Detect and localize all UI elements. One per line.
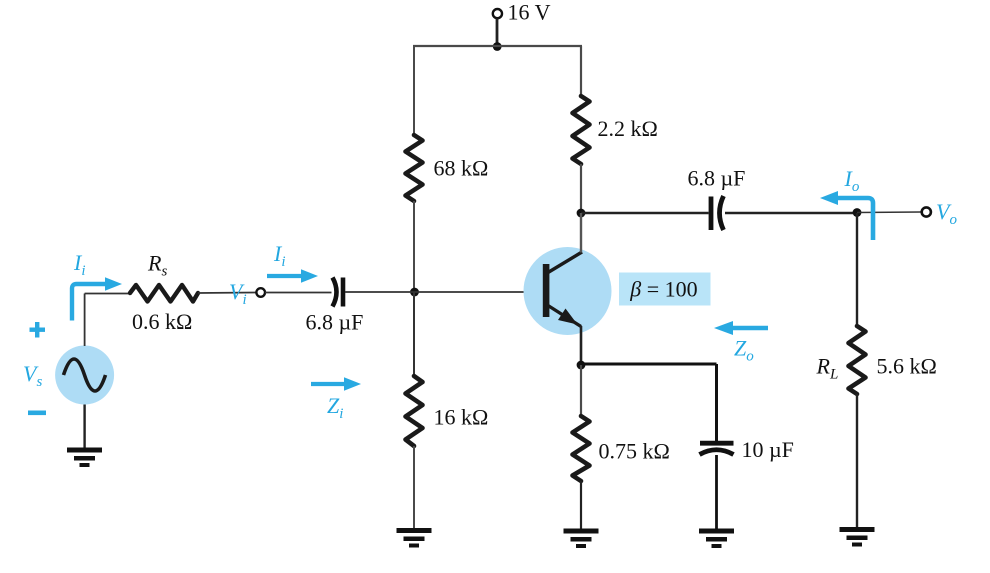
transistor Q1 emitter stroke bbox=[548, 306, 581, 327]
wire RE to ground bbox=[580, 481, 582, 529]
transistor Q1 collector stroke bbox=[548, 252, 582, 273]
wire RL to ground bbox=[856, 394, 858, 528]
svg-text:Io: Io bbox=[844, 166, 860, 195]
svg-text:0.6 kΩ: 0.6 kΩ bbox=[132, 309, 192, 334]
wire emitter node right bbox=[581, 363, 717, 366]
label plus bbox=[30, 328, 46, 332]
svg-text:6.8 µF: 6.8 µF bbox=[306, 310, 364, 335]
svg-text:5.6 kΩ: 5.6 kΩ bbox=[877, 354, 937, 379]
resistor R 68k bbox=[406, 135, 423, 201]
resistor R 16k bbox=[406, 376, 423, 446]
resistor RL 5.6k bbox=[849, 326, 866, 394]
svg-text:Ii: Ii bbox=[73, 250, 86, 279]
arrow Ii input bbox=[267, 274, 302, 278]
wire left branch upper bbox=[413, 46, 415, 136]
label minus bbox=[28, 411, 46, 416]
svg-text:0.75 kΩ: 0.75 kΩ bbox=[599, 439, 670, 464]
wire Rs to Vi terminal bbox=[198, 292, 256, 295]
svg-text:Rs: Rs bbox=[147, 251, 167, 280]
svg-text:2.2 kΩ: 2.2 kΩ bbox=[598, 116, 658, 141]
source Vs highlight circle bbox=[55, 346, 114, 405]
ground source bbox=[67, 448, 102, 468]
wire emitter node down bbox=[580, 365, 582, 417]
wire Vi to input cap bbox=[265, 292, 332, 294]
transistor Q1 base bar bbox=[543, 264, 550, 317]
wire down to bypass cap bbox=[715, 364, 718, 441]
wire collector node to output cap bbox=[581, 212, 709, 214]
svg-text:RL: RL bbox=[816, 354, 839, 383]
power terminal 16V circle bbox=[493, 9, 502, 18]
wire base node down bbox=[413, 292, 415, 377]
svg-text:68 kΩ: 68 kΩ bbox=[434, 156, 489, 181]
resistor Rs 0.6k bbox=[130, 285, 198, 302]
wire right branch upper bbox=[580, 46, 582, 97]
wire source top bbox=[84, 294, 86, 347]
svg-text:Zo: Zo bbox=[734, 336, 754, 365]
wire input cap to base node bbox=[345, 291, 414, 293]
ground 16k bbox=[397, 528, 432, 548]
svg-text:Zi: Zi bbox=[327, 393, 343, 422]
capacitor C 6.8uF input plate straight bbox=[341, 278, 346, 307]
terminal Vo circle bbox=[922, 207, 931, 216]
wire collector bbox=[580, 213, 582, 253]
terminal Vi circle bbox=[256, 288, 265, 297]
resistor RE 0.75k bbox=[573, 416, 590, 481]
arrow Zo bbox=[733, 326, 768, 330]
capacitor C 10uF plate curved bbox=[700, 450, 734, 455]
capacitor C 10uF plate straight bbox=[700, 441, 734, 446]
node supply rail junction bbox=[493, 42, 502, 51]
wire 2.2k to collector node bbox=[580, 164, 582, 213]
svg-text:Vs: Vs bbox=[23, 361, 42, 390]
svg-text:10 µF: 10 µF bbox=[742, 437, 794, 462]
svg-text:Ii: Ii bbox=[273, 241, 286, 270]
transistor Q1 emitter arrowhead bbox=[558, 309, 578, 325]
wire 16k to ground bbox=[413, 446, 415, 529]
svg-text:16 kΩ: 16 kΩ bbox=[434, 405, 489, 430]
wire source top horizontal bbox=[85, 293, 131, 295]
capacitor C 6.8uF output plate curved bbox=[720, 196, 724, 230]
wire 68k to base node bbox=[413, 201, 415, 292]
svg-text:16 V: 16 V bbox=[508, 0, 551, 25]
arrow Ii source bbox=[72, 284, 106, 321]
capacitor C 6.8uF output plate straight bbox=[709, 197, 714, 231]
svg-text:β = 100: β = 100 bbox=[629, 277, 697, 302]
node base junction bbox=[410, 288, 419, 297]
ground RE bbox=[564, 529, 599, 549]
wire source bottom bbox=[83, 405, 85, 449]
wire bypass cap to ground bbox=[715, 455, 718, 529]
wire emitter bbox=[580, 326, 583, 365]
source Vs sine wave bbox=[64, 359, 106, 391]
wire 16V to rail bbox=[496, 19, 499, 48]
node collector junction bbox=[577, 209, 586, 218]
ground RL bbox=[840, 527, 875, 547]
svg-text:Vo: Vo bbox=[936, 199, 957, 228]
node output junction bbox=[853, 208, 862, 217]
resistor R 2.2k bbox=[573, 96, 590, 164]
ground bypass cap bbox=[699, 529, 734, 549]
wire cap to output node bbox=[725, 212, 857, 214]
svg-text:Vi: Vi bbox=[229, 279, 247, 308]
label beta box bbox=[619, 273, 711, 306]
wire top rail bbox=[413, 45, 582, 47]
node emitter junction bbox=[577, 361, 586, 370]
arrow Zi bbox=[311, 382, 345, 386]
wire output node down to RL bbox=[856, 213, 858, 327]
wire base bbox=[414, 291, 543, 293]
arrow Io bbox=[837, 198, 873, 240]
transistor Q1 highlight circle bbox=[524, 247, 612, 335]
wire output node to Vo terminal bbox=[857, 211, 921, 214]
capacitor C 6.8uF input plate curved bbox=[333, 278, 337, 307]
svg-text:6.8 µF: 6.8 µF bbox=[688, 166, 746, 191]
